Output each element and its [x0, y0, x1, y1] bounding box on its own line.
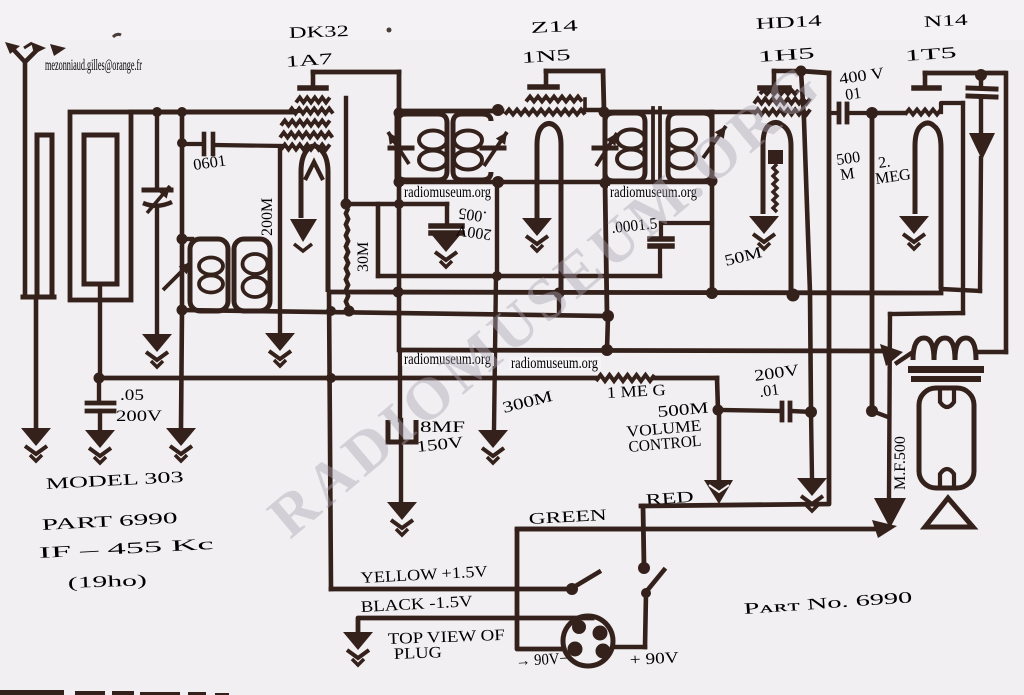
resistor R3 30M: [376, 204, 381, 276]
tube U3 1H5 grid coil rows: [754, 99, 810, 104]
svg-text:1 ME G: 1 ME G: [606, 382, 666, 402]
node N11: [492, 176, 504, 188]
watermark label 2: [608, 186, 700, 199]
tube U1 cathode arrow: [290, 219, 317, 242]
antenna: [23, 62, 28, 297]
ground G12: [343, 632, 373, 665]
node N28: [713, 405, 724, 416]
IF T3 right ovals: [668, 130, 696, 149]
wire det tap: [661, 221, 712, 225]
capacitor C7 400V .01: [829, 111, 836, 115]
trimmer arrow T2 right: [482, 146, 504, 151]
scan artifact bottom: [0, 690, 64, 695]
arrow to red wire: [704, 480, 733, 504]
bus Bminus y378: [99, 376, 596, 381]
ground G10: [797, 478, 827, 511]
wire yellow: [331, 587, 571, 592]
RF coil T1 inner rect: [84, 135, 117, 284]
capacitor C8: [979, 75, 983, 87]
trimmer arrow T2 left: [390, 146, 412, 151]
node N17: [393, 287, 404, 298]
ground G8: [478, 430, 508, 463]
node N7: [341, 199, 352, 210]
resistor R5 1MEG: [596, 375, 655, 381]
osc coil L2 right box: [234, 239, 270, 311]
tube U4 grid coil: [905, 110, 941, 115]
trimmer arrow T3 left: [594, 146, 616, 151]
capacitor C3 .00015: [650, 236, 672, 242]
node N15: [796, 66, 807, 77]
capacitor C5 8MF: [388, 420, 416, 442]
RF coil center tap wire: [98, 284, 102, 378]
wire x890: [889, 314, 890, 498]
wire plate spine: [397, 113, 402, 350]
bus AVC y313: [182, 310, 608, 316]
node N34: [641, 588, 651, 598]
speaker SP1 cone: [925, 498, 973, 527]
scan dot: [387, 28, 392, 33]
loop antenna L1 inner rect: [37, 135, 52, 297]
node N13: [600, 178, 611, 189]
wire grid step: [941, 103, 963, 112]
ground G5: [522, 218, 552, 251]
wire red: [641, 73, 829, 506]
capacitor C6 .01: [780, 403, 785, 420]
arrow B+ end: [880, 344, 903, 366]
svg-text:200V: 200V: [116, 408, 163, 425]
node N30: [866, 405, 878, 417]
tube U3 top cap: [760, 85, 789, 91]
ground G6: [749, 216, 779, 249]
node N18: [492, 271, 502, 281]
node N31: [975, 69, 987, 81]
IF transformer T2 right box: [453, 114, 491, 180]
IF T2 left ovals: [419, 131, 447, 150]
svg-text:1N5: 1N5: [521, 47, 571, 67]
svg-text:HD14: HD14: [755, 13, 822, 33]
tube U1 1A7 envelope: [301, 146, 328, 292]
node N9: [492, 104, 504, 116]
node N10: [394, 177, 405, 188]
trimmer arrow VC2: [163, 262, 191, 290]
IF T3 left ovals: [617, 130, 645, 149]
ground G3: [142, 334, 172, 367]
node N32: [566, 583, 578, 595]
tube U2 1N5 envelope: [537, 124, 561, 294]
osc feedback wavy wire: [346, 208, 348, 307]
tube U4 1T5 envelope: [915, 123, 941, 289]
svg-text:+ 90V: + 90V: [629, 649, 679, 669]
resistor R6 2MEG wire: [870, 113, 875, 411]
svg-text:200M: 200M: [259, 198, 276, 236]
wire volume lower: [811, 412, 812, 478]
svg-text:DK32: DK32: [289, 23, 350, 42]
svg-text:mezonniaud.gilles@orange.fr: mezonniaud.gilles@orange.fr: [45, 57, 142, 74]
resistor R2 50M wire: [710, 181, 715, 293]
ground G13: [166, 428, 196, 461]
ground G4: [265, 333, 295, 366]
wire volume spine: [801, 71, 811, 412]
wire AVC spine: [495, 182, 499, 276]
ground G9: [387, 502, 417, 535]
plug P1 pins: [572, 620, 586, 634]
wire Bminus drop: [717, 378, 718, 410]
wire IF2 top bus: [604, 110, 712, 115]
watermark label 4: [509, 357, 601, 370]
osc coil L2 right ovals: [243, 254, 268, 274]
ground G7: [431, 234, 461, 267]
wire row2 to bus: [294, 109, 298, 113]
svg-text:N14: N14: [923, 12, 968, 31]
node N25: [326, 306, 336, 316]
osc coil L2 left box: [190, 239, 228, 311]
wire x400 lower: [398, 350, 402, 420]
node N20: [706, 287, 718, 299]
watermark label 1: [402, 186, 494, 199]
svg-text:(19ho): (19ho): [68, 572, 148, 592]
wire red drop: [643, 506, 644, 566]
wire IF2 bottom: [605, 180, 712, 185]
loop antenna tap wire: [34, 299, 39, 428]
node N5: [177, 234, 188, 245]
wire green: [517, 529, 643, 649]
wire N14 plate link: [941, 289, 980, 291]
wire IF1 top bus: [399, 109, 502, 114]
node N33: [638, 562, 650, 574]
svg-text:01: 01: [844, 85, 862, 104]
switch SW2 right: [646, 570, 664, 592]
node N22: [344, 306, 355, 317]
watermark label 3: [402, 353, 494, 366]
ground G2: [85, 430, 115, 463]
wire y204: [346, 202, 447, 207]
wire x607 link: [607, 316, 608, 350]
tube U3 1H5 envelope: [763, 123, 791, 295]
scan mark top: [113, 34, 121, 37]
tube U1 1A7 grid coil rows: [296, 98, 330, 103]
node N3: [177, 107, 187, 117]
arrow plate: [969, 133, 995, 160]
node N26: [326, 373, 336, 383]
wire plate right: [1004, 73, 1009, 352]
trimmer arrow R2: [703, 126, 726, 158]
osc coil L2 left ovals: [199, 258, 223, 275]
IF transformer T3 right box: [668, 112, 712, 181]
svg-text:→ 90V−: → 90V−: [515, 650, 568, 670]
node N23: [602, 310, 614, 322]
tube U2 top cap: [530, 84, 557, 90]
transformer T4 primary: [913, 338, 976, 360]
capacitor C4 .005: [445, 204, 449, 222]
node N19: [554, 288, 565, 299]
wire osc lower: [181, 310, 182, 428]
IF T3 core: [651, 108, 655, 182]
ground G1: [21, 428, 51, 461]
svg-text:.05: .05: [120, 387, 144, 404]
tube U3 diode plate: [768, 150, 783, 164]
svg-text:1T5: 1T5: [904, 44, 957, 65]
speaker SP1 body: [919, 388, 974, 488]
capacitor C1 .05: [97, 378, 101, 402]
node N21: [787, 289, 800, 302]
wire jog from N27: [872, 411, 888, 417]
ground G11: [899, 216, 929, 249]
tube U4 top cap: [914, 85, 939, 91]
node N24: [601, 344, 613, 356]
tube U2 1N5 grid coil: [505, 110, 585, 115]
RF coil T1 outer rect: [70, 112, 131, 300]
transformer T4 core: [908, 366, 984, 373]
IF transformer T3 left box: [605, 112, 645, 181]
wire IF1 bottom: [399, 180, 502, 185]
wire N14 grid: [872, 111, 905, 115]
node N16: [394, 199, 404, 209]
wire filament drop: [329, 292, 331, 589]
wire black: [358, 618, 592, 632]
IF transformer T2 left box: [397, 113, 447, 180]
bus A+ y292: [330, 292, 941, 293]
tuning capacitor VC1: [155, 112, 159, 188]
arrow B- end: [872, 520, 897, 538]
svg-text:30M: 30M: [355, 242, 372, 272]
svg-text:PLUG: PLUG: [394, 644, 443, 663]
tube U1 filament: [305, 162, 323, 180]
svg-text:1A7: 1A7: [285, 51, 333, 71]
node N14a: [707, 176, 718, 187]
bus B+ y350: [400, 350, 884, 351]
wire osc line: [180, 112, 185, 310]
wire sw2 to plug: [645, 593, 646, 647]
wire grid bus: [131, 110, 294, 115]
svg-text:M.F.500: M.F.500: [892, 436, 909, 490]
node N27: [805, 406, 817, 418]
capacitor C2 0601: [182, 142, 201, 146]
wire IF1 bottom to 2nd IF: [498, 180, 605, 184]
resistor R1 200M wire: [278, 149, 282, 333]
tube U1 top cap: [300, 85, 326, 91]
node N8: [394, 108, 405, 119]
wire red to N15: [801, 71, 829, 73]
node N29: [866, 107, 878, 119]
svg-text:M: M: [839, 165, 855, 184]
plug P1 body: [563, 616, 613, 666]
loop antenna bottom bar: [23, 295, 54, 300]
switch SW1 left: [574, 572, 599, 587]
wire y314: [890, 313, 963, 314]
osc coil top link: [182, 237, 192, 241]
svg-text:Z14: Z14: [530, 18, 578, 37]
wire det to grid: [378, 274, 660, 278]
wire IF2 to 1H5 grid: [712, 110, 754, 115]
svg-text:radiomuseum.org: radiomuseum.org: [404, 184, 491, 201]
arrow grid return: [874, 498, 906, 528]
node N2: [152, 107, 162, 117]
svg-text:.01: .01: [758, 381, 780, 401]
IF T2 right ovals: [454, 131, 482, 150]
speaker SP1 coils: [940, 390, 954, 407]
node N12: [599, 107, 610, 118]
node N1: [94, 373, 105, 384]
node N6: [177, 305, 188, 316]
wire grid return vertical: [344, 98, 348, 204]
wire IF2 primary to B+: [605, 183, 607, 314]
node N4: [177, 138, 187, 148]
wire x559 link: [557, 293, 561, 315]
wire B- bottom: [517, 527, 876, 532]
wire y410: [719, 410, 781, 411]
wire x963: [961, 103, 965, 313]
